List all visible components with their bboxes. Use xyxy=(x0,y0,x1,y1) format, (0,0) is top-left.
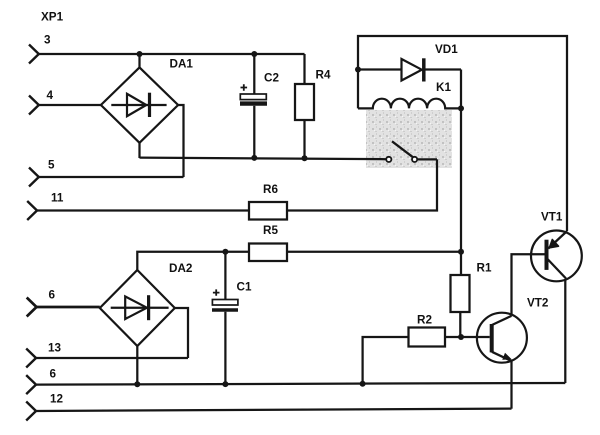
svg-text:C1: C1 xyxy=(237,281,252,294)
svg-text:K1: K1 xyxy=(436,81,451,94)
wire pin11 to R6 xyxy=(37,209,249,211)
svg-text:13: 13 xyxy=(48,342,62,355)
junction R4 bottom xyxy=(302,155,308,161)
wire R6 right to switch xyxy=(287,159,437,210)
wire R1 bottom lead xyxy=(459,312,461,337)
wire VT1 collector down to ground row xyxy=(564,280,566,384)
wire DA2 right vertex down to pin13 row xyxy=(175,308,188,358)
svg-text:C2: C2 xyxy=(264,72,279,85)
bridge rectifier DA2 xyxy=(100,270,175,346)
svg-text:XP1: XP1 xyxy=(41,11,64,24)
pin 6 lower xyxy=(26,375,36,394)
svg-text:3: 3 xyxy=(44,34,51,47)
svg-text:VT2: VT2 xyxy=(527,297,549,310)
svg-text:DA2: DA2 xyxy=(169,262,193,275)
resistor R5 xyxy=(249,244,287,262)
wire pin6 ground row xyxy=(36,383,565,385)
C2 polarity plus xyxy=(241,84,248,91)
svg-text:6: 6 xyxy=(49,289,56,302)
junction K1 right xyxy=(458,105,464,111)
svg-text:R6: R6 xyxy=(263,183,278,196)
junction DA1 top xyxy=(137,51,143,57)
svg-text:DA1: DA1 xyxy=(170,58,194,71)
pin 11 xyxy=(27,201,37,220)
pin 5 xyxy=(29,168,39,187)
relay contact switch xyxy=(386,141,437,162)
transistor VT2 xyxy=(477,313,527,363)
svg-text:R5: R5 xyxy=(263,224,278,237)
wire DA1 right vertex down to pin5 row xyxy=(178,105,183,177)
pin 6 upper (bold) xyxy=(27,298,37,317)
pin 12 xyxy=(26,402,36,421)
junction C1 top xyxy=(222,249,228,255)
junction R5 right xyxy=(458,249,464,255)
svg-text:12: 12 xyxy=(50,393,64,406)
resistor R1 xyxy=(451,275,470,312)
resistor R6 xyxy=(249,202,287,220)
junction C2 bottom xyxy=(251,155,257,161)
wire DA1 bottom stub xyxy=(138,143,140,158)
wire pin4 to DA1 left xyxy=(39,104,101,106)
svg-text:R4: R4 xyxy=(316,69,331,82)
DA2 inner diode xyxy=(111,295,169,320)
C1 polarity plus xyxy=(213,289,220,295)
pin 13 xyxy=(26,349,36,368)
wire R5 row right to K1 vertical xyxy=(287,251,461,253)
svg-text:5: 5 xyxy=(48,159,55,172)
wire DC minus row to switch xyxy=(140,158,387,160)
wire DA2 bottom stub xyxy=(136,346,138,384)
pin 3 xyxy=(29,45,39,64)
junction C1 bottom xyxy=(222,381,228,387)
diode VD1 xyxy=(358,58,461,81)
wire base node to VT2 base xyxy=(461,336,490,338)
junction R2 corner on ground row xyxy=(360,381,366,387)
resistor R4 xyxy=(295,54,314,158)
pin 4 xyxy=(29,96,39,115)
wire R2 left lead and corner down to ground row xyxy=(363,337,409,384)
wire R2 right to base node xyxy=(445,336,461,338)
svg-text:VT1: VT1 xyxy=(541,211,563,224)
wire DA1 top stub xyxy=(138,54,140,67)
relay coil K1 xyxy=(358,99,461,109)
wire pin6 to DA2 left (bold) xyxy=(37,306,100,309)
svg-text:R2: R2 xyxy=(417,314,432,327)
svg-text:VD1: VD1 xyxy=(435,43,458,56)
resistor R2 xyxy=(409,328,446,347)
wire pin5 row xyxy=(39,176,184,178)
wire VT2 collector up to VT1 base xyxy=(512,254,545,316)
DA1 inner diode xyxy=(111,93,166,117)
wire K1 right vertical down to R1 xyxy=(460,70,462,276)
capacitor C1 xyxy=(212,252,238,384)
svg-text:6: 6 xyxy=(50,368,57,381)
wire pin3 row xyxy=(39,53,305,55)
wire VT2 emitter down to pin12 row xyxy=(510,361,512,409)
junction DA2 bottom xyxy=(134,381,140,387)
capacitor C2 xyxy=(240,54,267,158)
wire pin13 row xyxy=(36,357,188,359)
transistor VT1 xyxy=(531,231,582,282)
svg-text:4: 4 xyxy=(47,89,54,102)
junction C2 top xyxy=(251,51,257,57)
wire top rail xyxy=(358,36,567,231)
wire R5 row left to DA2 top xyxy=(137,252,249,270)
junction VD1 anode xyxy=(355,67,361,73)
bridge rectifier DA1 xyxy=(101,67,178,142)
wire pin12 row xyxy=(36,409,512,411)
svg-text:11: 11 xyxy=(51,192,64,205)
junction base node xyxy=(458,334,464,340)
svg-text:R1: R1 xyxy=(477,262,492,275)
